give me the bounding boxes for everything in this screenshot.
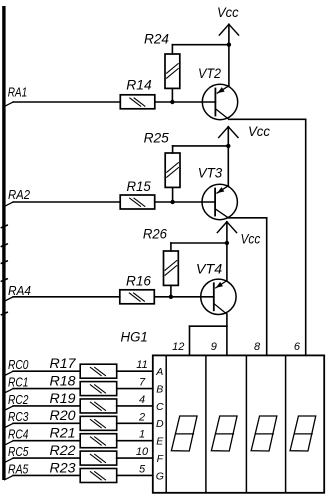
svg-text:10: 10 [136,446,149,458]
svg-text:R19: R19 [50,391,77,406]
svg-text:VT4: VT4 [196,260,223,276]
svg-text:R15: R15 [127,179,152,194]
svg-text:R24: R24 [144,31,169,46]
svg-text:9: 9 [211,341,217,353]
svg-text:R18: R18 [50,373,77,388]
svg-text:7: 7 [139,377,146,389]
svg-text:R17: R17 [50,356,77,371]
svg-text:RC2: RC2 [8,393,28,407]
svg-text:F: F [157,453,164,465]
svg-text:8: 8 [254,341,261,353]
svg-text:Vcc: Vcc [248,123,270,139]
svg-text:6: 6 [294,341,301,353]
svg-text:G: G [156,470,164,482]
svg-text:5: 5 [139,463,146,475]
svg-text:C: C [156,401,164,413]
svg-text:RA5: RA5 [8,462,28,476]
svg-text:RA1: RA1 [8,85,28,99]
svg-text:A: A [155,366,163,378]
svg-text:VT3: VT3 [198,165,223,181]
svg-text:R25: R25 [144,130,170,145]
svg-text:RC4: RC4 [8,428,28,442]
svg-text:R14: R14 [126,77,151,92]
svg-text:R22: R22 [50,443,77,458]
svg-text:RC0: RC0 [8,358,28,372]
svg-text:12: 12 [172,341,184,353]
svg-text:HG1: HG1 [121,329,148,344]
svg-text:RA4: RA4 [8,284,31,298]
svg-text:VT2: VT2 [198,65,221,81]
svg-text:RC5: RC5 [8,445,28,459]
svg-text:11: 11 [136,359,147,371]
svg-text:RC3: RC3 [8,410,28,424]
svg-text:RA2: RA2 [8,188,30,202]
svg-text:E: E [156,436,164,448]
svg-text:RC1: RC1 [8,375,28,389]
svg-text:R20: R20 [50,408,77,423]
svg-text:R23: R23 [50,460,77,475]
svg-text:D: D [156,418,164,430]
svg-text:Vcc: Vcc [217,4,239,20]
svg-text:Vcc: Vcc [241,230,261,246]
svg-text:1: 1 [139,429,145,441]
svg-text:2: 2 [138,411,145,423]
svg-text:4: 4 [139,394,145,406]
svg-text:R26: R26 [143,227,168,242]
svg-text:B: B [156,383,163,395]
svg-text:R21: R21 [50,426,76,441]
svg-text:R16: R16 [126,274,151,289]
